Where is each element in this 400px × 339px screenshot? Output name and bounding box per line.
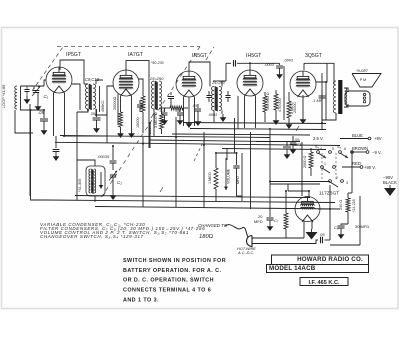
- svg-text:IH5GT: IH5GT: [246, 53, 262, 59]
- oscillator coil windings: [89, 169, 96, 194]
- wire C1 top: [33, 86, 35, 89]
- bus line 7: [150, 140, 270, 142]
- svg-text:3Q5GT: 3Q5GT: [305, 53, 323, 59]
- svg-text:.00035: .00035: [97, 154, 110, 159]
- wire drop a: [149, 122, 151, 148]
- capacitor C7 20 MFD: [269, 213, 271, 217]
- svg-text:BLACK: BLACK: [383, 180, 397, 185]
- svg-text:.1 MF: .1 MF: [312, 98, 323, 103]
- resistor 2000 ohm: [310, 148, 312, 152]
- dashed chassis outline right diagonal short: [206, 47, 214, 60]
- svg-text:C₂: C₂: [117, 180, 122, 185]
- wire T2 bottom: [153, 109, 155, 120]
- svg-text:180Ω: 180Ω: [199, 234, 214, 240]
- resistor 3meg: [160, 114, 164, 129]
- svg-text:25=250: 25=250: [149, 76, 164, 81]
- bottom bus 2: [45, 200, 335, 203]
- wire V5 screen: [316, 63, 327, 82]
- voice coil dots right: [363, 93, 365, 95]
- tube V5 3Q5GT: [290, 71, 316, 97]
- svg-text:3: 3: [346, 181, 348, 185]
- resistor 180 ohm line: [285, 191, 287, 213]
- svg-text:+9V: +9V: [374, 136, 382, 141]
- dashed chassis long diagonal: [101, 47, 200, 199]
- svg-text:MFD: MFD: [236, 176, 240, 184]
- capacitor .05 MFD right: [286, 142, 288, 147]
- svg-text:240 Ω: 240 Ω: [339, 200, 343, 210]
- switch lower contacts 1: [321, 166, 324, 169]
- wire right loop bottom: [330, 244, 360, 246]
- trimmer cap T3 right: [225, 96, 230, 98]
- svg-text:*9-087: *9-087: [356, 68, 369, 73]
- IF transformer T3: [212, 87, 222, 112]
- switch S3 contacts: [317, 151, 320, 154]
- svg-text:*31-305: *31-305: [78, 179, 82, 192]
- ground arrow under V3: [188, 97, 190, 120]
- wire V1 plate to T1: [60, 60, 84, 84]
- svg-text:MODEL 14ACB: MODEL 14ACB: [269, 265, 316, 272]
- tube V1 1P5GT: [46, 67, 72, 93]
- resistor 100000: [264, 92, 266, 96]
- svg-text:.01: .01: [175, 109, 180, 113]
- wire osc bottom: [94, 196, 96, 202]
- wire T1 sec to V2 grid: [96, 86, 113, 115]
- capacitor .006 vol: [236, 153, 238, 165]
- svg-text:2000 Ω: 2000 Ω: [303, 155, 307, 168]
- wire drop long 143: [142, 137, 144, 207]
- voice coil box: [345, 91, 370, 106]
- svg-text:RED: RED: [352, 161, 361, 166]
- wire left col 2: [15, 110, 33, 133]
- svg-text:100,000 Ω: 100,000 Ω: [266, 92, 270, 110]
- wire left col 1: [29, 104, 31, 196]
- wire fil chain: [256, 141, 300, 143]
- svg-text:I.F. 465 K.C.: I.F. 465 K.C.: [308, 280, 340, 286]
- svg-text:C₈: C₈: [334, 225, 339, 230]
- junction dots: [63, 135, 65, 137]
- svg-text:LOOP *41-89: LOOP *41-89: [1, 85, 6, 108]
- AC plug: [247, 236, 252, 247]
- dashed chassis outline top: [57, 46, 200, 48]
- wire V6 plate feed: [287, 184, 289, 191]
- svg-text:20000Ω: 20000Ω: [113, 96, 117, 110]
- horizontal pair right 1: [270, 181, 330, 183]
- wire plug top prong: [259, 237, 304, 239]
- svg-text:.05: .05: [192, 104, 198, 108]
- svg-text:P M: P M: [360, 78, 366, 82]
- tick mark 1: [151, 113, 154, 118]
- trimmer cap T3 left: [206, 96, 211, 98]
- bus line 4: [183, 123, 326, 124]
- ground arrow under V2: [131, 96, 133, 130]
- capacitor above V5 area: [279, 63, 281, 65]
- dashed switch linkage 1: [321, 153, 323, 180]
- svg-text:S₃: S₃: [315, 145, 320, 149]
- loop antenna coil: [15, 86, 17, 109]
- wire right loop vertical: [359, 196, 361, 245]
- wire V4 left grid drop: [237, 96, 239, 129]
- wire V1 screen right: [72, 84, 80, 110]
- svg-text:HOWARD RADIO CO.: HOWARD RADIO CO.: [297, 256, 363, 263]
- wire left col down: [31, 110, 46, 200]
- tube V2 1A7GT: [113, 70, 139, 96]
- wire T4 sec top: [344, 88, 348, 92]
- switch S4 contacts: [339, 151, 342, 154]
- wire drop b: [203, 132, 205, 208]
- IF transformer T1: [86, 84, 96, 110]
- resistor horizontal mid: [170, 106, 183, 110]
- trimmer osc: [110, 161, 117, 163]
- svg-text:2.5 V.: 2.5 V.: [313, 136, 324, 141]
- wire 2000 feed: [301, 142, 303, 196]
- wire loop bottom: [21, 109, 45, 110]
- resistor 240 ohm: [347, 193, 349, 198]
- svg-text:*50-230: *50-230: [151, 61, 164, 65]
- svg-text:OR D. C. OPERATION, SWITCH: OR D. C. OPERATION, SWITCH: [123, 278, 214, 284]
- svg-text:2: 2: [336, 176, 338, 180]
- power cord: [225, 225, 248, 237]
- wire loop top: [21, 80, 47, 86]
- wire short 137: [64, 135, 107, 137]
- wire drop d: [321, 73, 323, 130]
- wire right vertical 330: [329, 185, 331, 240]
- wire drop c: [226, 148, 228, 160]
- wire V4 grid cap: [237, 63, 250, 71]
- svg-text:.05: .05: [90, 112, 95, 116]
- capacitor .05 left: [43, 110, 45, 118]
- capacitor .1 V5: [321, 90, 323, 95]
- svg-text:20000: 20000: [293, 102, 297, 113]
- bus line 5: [190, 129, 326, 130]
- capacitor under T1: [93, 118, 101, 120]
- wire drop e: [76, 112, 78, 200]
- horizontal pair right 2: [270, 183, 320, 185]
- resistor 470000 AVC: [275, 90, 277, 94]
- capacitor V2 area: [139, 100, 141, 104]
- capacitor .0003 grid: [234, 60, 236, 66]
- trimmer capacitor on loop: [24, 90, 29, 92]
- wire vol box right: [250, 132, 252, 209]
- IF box: [300, 278, 348, 286]
- svg-text:25=250: 25=250: [211, 81, 226, 85]
- svg-text:A.C.-D.C.: A.C.-D.C.: [237, 251, 254, 255]
- variable capacitor C2: [110, 175, 116, 177]
- wire V1 grid left: [44, 79, 46, 81]
- bottom bus 1: [75, 196, 310, 198]
- wire vol top: [216, 152, 237, 154]
- wire rect right: [318, 208, 330, 210]
- arrow under V5: [302, 95, 304, 116]
- svg-text:117Z6GT: 117Z6GT: [319, 190, 339, 196]
- svg-text:1: 1: [324, 162, 326, 166]
- tube V6 117Z6GT: [295, 197, 320, 223]
- wire osc top: [77, 160, 95, 166]
- wire switch feed: [351, 152, 353, 193]
- svg-text:S₄: S₄: [337, 145, 342, 149]
- wire V5 plate to T4: [304, 63, 334, 83]
- bus line 6: [172, 134, 310, 135]
- svg-text:SWITCH SHOWN IN POSITION F: SWITCH SHOWN IN POSITION FOR: [123, 258, 226, 264]
- svg-text:C₇: C₇: [274, 218, 279, 223]
- svg-text:CONNECTS TERMINAL 4 TO 6: CONNECTS TERMINAL 4 TO 6: [123, 288, 211, 294]
- svg-text:.0003: .0003: [208, 113, 217, 117]
- volume resistor 1meg: [215, 153, 217, 168]
- svg-text:VOLUME: VOLUME: [227, 168, 231, 184]
- wire V5 plate up: [303, 63, 305, 70]
- capacitor .05 mid2: [197, 104, 199, 108]
- filament legs V2: [117, 94, 119, 125]
- wire C8 top: [341, 224, 348, 225]
- svg-text:C9,C10: C9,C10: [85, 77, 100, 82]
- wire T3 sec: [222, 81, 226, 87]
- svg-text:456KC: 456KC: [101, 100, 105, 112]
- wire drop f: [106, 109, 108, 143]
- capacitor bias 2: [292, 136, 294, 141]
- resistor 2meg: [288, 92, 290, 101]
- svg-text:.01: .01: [159, 109, 164, 113]
- svg-text:5: 5: [332, 147, 334, 151]
- svg-text:6: 6: [344, 147, 346, 151]
- wire drop g: [153, 120, 155, 137]
- capacitor C8 30 MFD: [337, 226, 344, 228]
- wire T1 right top: [96, 80, 103, 84]
- filament legs V3: [183, 97, 185, 126]
- ground under V6: [311, 229, 313, 232]
- svg-text:30 MFD: 30 MFD: [355, 224, 369, 229]
- resistor right V2: [142, 92, 144, 96]
- svg-text:CHANGEOVER SWITCH, S₃,S₄ *129: CHANGEOVER SWITCH, S₃,S₄ *129-317: [40, 234, 144, 239]
- wire top V4 to cap: [250, 62, 280, 64]
- svg-text:.0003: .0003: [264, 62, 275, 67]
- capacitor small mid-left: [55, 136, 57, 148]
- bus line 1: [60, 136, 270, 138]
- svg-text:15000: 15000: [136, 117, 140, 128]
- wire res h: [162, 107, 171, 109]
- svg-text:BLUE: BLUE: [352, 133, 363, 138]
- svg-text:MFD: MFD: [254, 219, 263, 224]
- switch lower contacts 2: [329, 180, 332, 183]
- wire red: [342, 166, 360, 168]
- title box row2: [267, 265, 369, 273]
- filament legs V1: [53, 93, 55, 136]
- wire T1 bottom to cap: [77, 109, 88, 112]
- osc coil arrow: [100, 172, 102, 185]
- svg-text:BROWN: BROWN: [352, 146, 368, 151]
- title box outer: [272, 255, 369, 265]
- svg-text:IA7GT: IA7GT: [128, 52, 144, 58]
- wire B+ vertical: [325, 82, 327, 120]
- wire V3 plate to T3: [189, 62, 210, 87]
- wire V2 grid3: [139, 79, 143, 92]
- tube V4 1H5GT: [237, 70, 263, 96]
- svg-text:.05: .05: [319, 232, 325, 237]
- wire V2 plate to T2: [126, 61, 149, 148]
- wire vol box left: [234, 118, 236, 153]
- wire T3 bottom: [213, 111, 215, 123]
- capacitor .05 bottom right: [321, 237, 323, 243]
- wire .0003 down: [226, 62, 231, 64]
- oscillator coil box: [86, 166, 105, 196]
- svg-text:*24-218: *24-218: [352, 199, 356, 212]
- svg-text:C₁: C₁: [44, 94, 49, 99]
- filament legs V4: [244, 96, 246, 128]
- wire drop h: [269, 130, 271, 213]
- tick mark 3: [296, 126, 299, 131]
- wire C2 down: [112, 177, 114, 192]
- filament legs V6: [303, 221, 305, 238]
- wire T4 bottom: [322, 113, 336, 120]
- tick mark 2: [160, 187, 163, 192]
- dashed chassis outline left diagonal: [32, 47, 63, 91]
- svg-text:AND 1 TO 3.: AND 1 TO 3.: [123, 297, 159, 303]
- resistor 20000 under V2: [120, 96, 122, 112]
- svg-text:470,000: 470,000: [278, 98, 282, 112]
- svg-text:IP5GT: IP5GT: [66, 52, 82, 58]
- svg-text:BATTERY OPERATION. FOR A. C: BATTERY OPERATION. FOR A. C.: [123, 268, 222, 274]
- wire T4 sec bot: [344, 104, 348, 107]
- variable capacitor C1: [33, 91, 39, 93]
- wire brown: [352, 151, 366, 153]
- svg-text:3 MEG Ω: 3 MEG Ω: [154, 112, 158, 128]
- wire plug to rect: [259, 240, 318, 244]
- wire drop long 176: [175, 117, 177, 207]
- svg-text:IN5GT: IN5GT: [192, 53, 208, 59]
- wire blue: [340, 138, 368, 140]
- svg-text:.0003: .0003: [284, 59, 294, 63]
- speaker cone: [352, 74, 381, 88]
- IF transformer T2: [152, 81, 162, 110]
- ground below C1: [37, 93, 39, 103]
- dashed switch linkage 2: [335, 153, 337, 180]
- svg-text:1 MEG: 1 MEG: [208, 172, 212, 184]
- svg-text:−9 V.: −9 V.: [372, 150, 382, 155]
- dashed linkage volume control: [194, 136, 206, 161]
- svg-text:4: 4: [320, 147, 322, 151]
- tube V3 1N5GT: [176, 71, 202, 97]
- ground black lead: [389, 185, 391, 188]
- capacitor .05 mid: [164, 108, 166, 112]
- output transformer T4: [334, 81, 336, 113]
- bottom bus 3: [95, 207, 340, 210]
- bus line 3: [222, 149, 326, 150]
- bus line 2: [55, 142, 340, 145]
- volume wiper arrow: [225, 158, 227, 190]
- svg-text:+90 V.: +90 V.: [364, 165, 376, 170]
